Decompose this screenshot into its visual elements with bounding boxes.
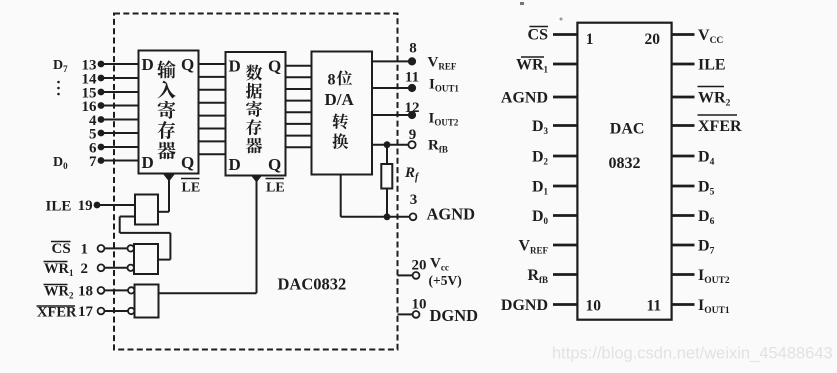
svg-text:D: D — [142, 55, 154, 74]
svg-text:10: 10 — [412, 297, 427, 313]
svg-text:(+5V): (+5V) — [429, 273, 462, 288]
svg-text:VREF: VREF — [518, 237, 548, 255]
svg-text:IOUT2: IOUT2 — [429, 111, 459, 128]
svg-text:LE: LE — [182, 181, 201, 196]
svg-text:D5: D5 — [698, 178, 715, 197]
svg-text:WR1: WR1 — [516, 56, 549, 74]
svg-text:12: 12 — [405, 100, 420, 116]
svg-text:9: 9 — [409, 127, 417, 143]
svg-text:https://blog.csdn.net/weixin_4: https://blog.csdn.net/weixin_45488643 — [552, 345, 833, 363]
svg-text:WR2: WR2 — [698, 89, 731, 108]
svg-text:ILE: ILE — [698, 56, 726, 73]
svg-text:8: 8 — [409, 41, 417, 57]
svg-text:AGND: AGND — [427, 205, 476, 224]
svg-text:CS: CS — [528, 26, 549, 43]
svg-text:IOUT1: IOUT1 — [698, 297, 730, 316]
svg-text:VREF: VREF — [428, 55, 457, 72]
svg-text:AGND: AGND — [501, 89, 548, 106]
svg-text:D: D — [229, 155, 241, 174]
svg-text:WR2: WR2 — [44, 283, 74, 300]
svg-text:DAC0832: DAC0832 — [278, 275, 347, 294]
svg-text:Q: Q — [181, 153, 194, 172]
svg-text:Q: Q — [268, 155, 281, 174]
svg-text:IOUT1: IOUT1 — [429, 77, 459, 94]
svg-text:ILE: ILE — [46, 199, 72, 215]
svg-text:XFER: XFER — [37, 305, 77, 321]
svg-text:19: 19 — [78, 198, 93, 214]
svg-text:17: 17 — [78, 304, 94, 320]
svg-text:3: 3 — [410, 192, 418, 208]
svg-text:D: D — [142, 153, 154, 172]
svg-text:Rf: Rf — [404, 165, 420, 183]
svg-text:7: 7 — [89, 154, 97, 170]
svg-text:CS: CS — [52, 241, 71, 257]
svg-text:D6: D6 — [698, 208, 715, 227]
svg-text:Q: Q — [181, 55, 194, 74]
svg-text:1: 1 — [586, 31, 594, 48]
svg-text:11: 11 — [647, 298, 662, 315]
svg-text:LE: LE — [266, 181, 285, 196]
svg-text:IOUT2: IOUT2 — [698, 267, 730, 286]
svg-text:D/A: D/A — [325, 90, 355, 109]
svg-text:DGND: DGND — [430, 306, 479, 325]
svg-text:D7: D7 — [53, 58, 68, 74]
svg-text:0832: 0832 — [609, 155, 641, 172]
svg-text:D4: D4 — [698, 148, 715, 167]
svg-text:D3: D3 — [532, 118, 549, 136]
svg-text:DAC: DAC — [610, 121, 645, 138]
svg-text:2: 2 — [81, 261, 89, 277]
svg-text:RfB: RfB — [428, 138, 448, 155]
svg-text:8: 8 — [328, 72, 336, 89]
svg-text:20: 20 — [412, 258, 427, 274]
svg-text:Q: Q — [268, 57, 281, 76]
svg-text:D: D — [229, 57, 241, 76]
svg-text:18: 18 — [78, 283, 93, 299]
svg-text:11: 11 — [405, 70, 419, 86]
svg-text:20: 20 — [645, 31, 661, 48]
svg-text:D7: D7 — [698, 237, 715, 256]
svg-text:Vcc: Vcc — [430, 256, 449, 273]
svg-text:DGND: DGND — [501, 297, 548, 314]
svg-text:RfB: RfB — [527, 267, 548, 285]
svg-text:XFER: XFER — [698, 118, 742, 135]
svg-text:WR1: WR1 — [44, 261, 74, 278]
svg-text:1: 1 — [81, 242, 89, 258]
svg-text:D1: D1 — [532, 178, 549, 196]
svg-text:D0: D0 — [532, 208, 549, 226]
svg-text:D0: D0 — [53, 155, 68, 171]
svg-text:VCC: VCC — [698, 27, 723, 46]
svg-text:10: 10 — [586, 298, 602, 315]
svg-text:D2: D2 — [532, 148, 549, 166]
